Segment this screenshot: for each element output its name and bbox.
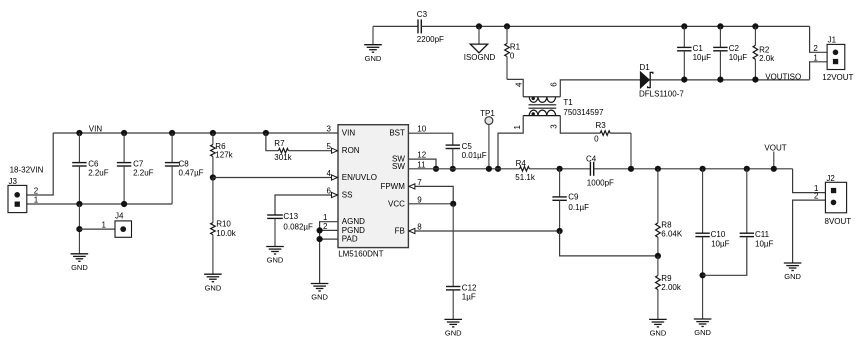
node R3 to rail: [628, 166, 634, 172]
svg-text:AGND: AGND: [342, 217, 365, 226]
svg-text:R6: R6: [215, 142, 226, 151]
connector J3: [8, 185, 27, 212]
svg-text:2: 2: [323, 222, 328, 231]
wire VCC: [408, 203, 453, 205]
svg-text:SW: SW: [392, 162, 405, 171]
svg-text:GND: GND: [694, 328, 711, 337]
svg-text:7: 7: [417, 178, 422, 187]
ground (R10): [204, 273, 222, 275]
svg-text:R9: R9: [661, 274, 672, 283]
svg-text:C5: C5: [462, 142, 473, 151]
svg-text:0.01µF: 0.01µF: [462, 151, 487, 160]
ground (input): [71, 253, 89, 255]
ground (C13): [266, 246, 284, 248]
svg-text:VOUTISO: VOUTISO: [765, 72, 801, 81]
node C1 bottom: [681, 77, 687, 83]
svg-text:1µF: 1µF: [462, 292, 476, 301]
svg-text:FPWM: FPWM: [380, 182, 405, 191]
svg-text:9: 9: [417, 195, 422, 204]
svg-text:2200pF: 2200pF: [417, 35, 444, 44]
svg-text:6: 6: [549, 82, 558, 87]
svg-text:127k: 127k: [215, 151, 233, 160]
node FB junction: [557, 228, 563, 234]
svg-text:2.2uF: 2.2uF: [88, 169, 109, 178]
capacitor C4: [589, 162, 591, 176]
svg-text:6.04K: 6.04K: [661, 230, 683, 239]
capacitor C11: [746, 169, 748, 233]
svg-text:VIN: VIN: [89, 125, 103, 134]
svg-text:18-32VIN: 18-32VIN: [10, 165, 44, 174]
svg-text:12: 12: [417, 151, 426, 160]
svg-text:C4: C4: [586, 154, 597, 163]
svg-text:2: 2: [814, 192, 819, 201]
node C10/C11 merge: [700, 272, 706, 278]
svg-text:301k: 301k: [274, 153, 292, 162]
capacitor C8: [171, 133, 173, 163]
ground (top left): [372, 26, 374, 44]
node J4 tap: [76, 226, 82, 232]
wire PGND: [320, 229, 338, 231]
wire GND rail (input): [27, 203, 172, 205]
svg-text:J4: J4: [115, 211, 124, 220]
ISOGND symbol: [478, 26, 480, 44]
resistor R1: [506, 26, 508, 43]
ground (C12): [444, 318, 462, 320]
resistor R7: [279, 148, 289, 153]
wire input GND drop: [78, 204, 80, 254]
svg-text:J2: J2: [826, 174, 835, 183]
svg-text:2.2uF: 2.2uF: [133, 169, 154, 178]
wire VOUT rail: [594, 168, 793, 170]
svg-text:GND: GND: [365, 54, 382, 63]
svg-text:D1: D1: [640, 63, 651, 72]
svg-text:2.0k: 2.0k: [759, 54, 775, 63]
svg-text:1: 1: [102, 220, 107, 229]
node C2 bottom: [717, 77, 723, 83]
wire VOUTISO rail: [650, 79, 809, 81]
svg-text:8VOUT: 8VOUT: [825, 217, 852, 226]
svg-text:4: 4: [327, 169, 332, 178]
wire SW rail: [408, 168, 519, 170]
svg-text:R3: R3: [596, 121, 607, 130]
node C6 bottom: [76, 201, 82, 207]
svg-text:VOUT: VOUT: [764, 143, 786, 152]
wire VIN rail: [53, 132, 338, 134]
svg-text:FB: FB: [395, 227, 405, 236]
capacitor C5: [446, 144, 460, 146]
wire VOUT to J2 pin 1: [793, 169, 826, 193]
svg-text:0.1µF: 0.1µF: [568, 203, 589, 212]
node R8 top: [655, 166, 661, 172]
svg-text:ISOGND: ISOGND: [464, 53, 496, 62]
svg-text:C13: C13: [283, 212, 298, 221]
svg-text:R8: R8: [661, 221, 672, 230]
svg-text:EN/UVLO: EN/UVLO: [342, 173, 377, 182]
ground (U1): [311, 283, 329, 285]
ground (J2): [784, 262, 802, 264]
resistor R8: [657, 169, 659, 223]
U1 FB input arrow: [409, 228, 415, 233]
svg-text:2: 2: [34, 187, 39, 196]
svg-text:PGND: PGND: [342, 226, 365, 235]
svg-text:GND: GND: [71, 263, 88, 272]
svg-text:750314597: 750314597: [563, 108, 604, 117]
node VCC junction: [450, 201, 456, 207]
svg-text:R1: R1: [510, 42, 521, 51]
wire FB: [408, 230, 559, 232]
capacitor C6: [78, 133, 80, 163]
node C8 top: [169, 130, 175, 136]
node EN junction: [210, 174, 216, 180]
capacitor C13: [267, 214, 283, 216]
node VOUT tap: [771, 166, 777, 172]
node C5 bottom: [450, 166, 456, 172]
capacitor C1: [683, 26, 685, 47]
node SW12 junction: [433, 166, 439, 172]
svg-text:10µF: 10µF: [729, 53, 748, 62]
svg-text:3: 3: [550, 124, 559, 129]
node C1 top: [681, 23, 687, 29]
node PAD junction: [317, 236, 323, 242]
wire FPWM: [408, 186, 453, 203]
svg-text:0.082µF: 0.082µF: [283, 222, 313, 231]
svg-text:0.47µF: 0.47µF: [179, 169, 204, 178]
wire SW pin 12 jog: [408, 159, 436, 169]
svg-text:R10: R10: [216, 220, 231, 229]
svg-text:1: 1: [323, 213, 328, 222]
node ripple junction: [557, 166, 563, 172]
svg-text:0: 0: [594, 135, 599, 144]
wire top rail to J1 pin 2: [810, 26, 828, 52]
svg-text:10.0k: 10.0k: [216, 229, 237, 238]
resistor R2: [754, 26, 756, 45]
node T1 pin1 on rail: [495, 166, 501, 172]
svg-text:C6: C6: [88, 160, 99, 169]
svg-text:5: 5: [327, 142, 332, 151]
svg-text:C1: C1: [693, 44, 704, 53]
svg-text:12VOUT: 12VOUT: [822, 73, 853, 82]
wire EN/UVLO: [213, 177, 338, 179]
svg-text:51.1k: 51.1k: [515, 173, 536, 182]
connector J2: [825, 182, 846, 213]
node C7 bottom: [121, 201, 127, 207]
ground (C10): [694, 318, 712, 320]
svg-text:8: 8: [417, 223, 422, 232]
wire FB to divider: [560, 231, 658, 256]
svg-text:C9: C9: [568, 193, 579, 202]
svg-text:1000pF: 1000pF: [587, 178, 614, 187]
diode D1: [640, 72, 649, 88]
svg-text:1: 1: [813, 53, 818, 62]
wire top rail right of C3: [421, 25, 809, 27]
svg-text:J3: J3: [9, 177, 18, 186]
svg-text:C2: C2: [729, 44, 740, 53]
resistor R9: [657, 256, 659, 276]
node ISOGND junction: [476, 23, 482, 29]
U1 FPWM input arrow: [409, 184, 415, 189]
node C2 top: [717, 23, 723, 29]
U1 EN input arrow: [332, 175, 338, 180]
svg-text:R7: R7: [274, 139, 285, 148]
wire VCC to C12: [452, 204, 454, 287]
svg-text:10µF: 10µF: [693, 53, 712, 62]
svg-text:C3: C3: [417, 10, 428, 19]
svg-text:GND: GND: [311, 293, 328, 302]
svg-text:GND: GND: [267, 256, 284, 265]
svg-text:T1: T1: [563, 98, 573, 107]
node R2 top: [752, 23, 758, 29]
svg-text:VCC: VCC: [388, 199, 405, 208]
U1 SS input arrow: [332, 192, 338, 197]
svg-text:11: 11: [417, 160, 426, 169]
capacitor C7: [123, 133, 125, 163]
capacitor C10: [702, 169, 704, 233]
svg-text:C12: C12: [462, 283, 477, 292]
svg-text:R4: R4: [516, 159, 527, 168]
op-amp U1 LM5160DNT body: [338, 125, 408, 248]
resistor R4: [520, 167, 530, 172]
capacitor C2: [719, 26, 721, 47]
wire T1 pin 3 to R3: [560, 116, 600, 134]
svg-text:2: 2: [813, 44, 818, 53]
svg-text:VIN: VIN: [342, 129, 356, 138]
svg-text:1: 1: [513, 125, 522, 130]
wire SS: [275, 195, 338, 215]
wire J3 pin2 riser: [27, 133, 53, 195]
svg-text:4: 4: [514, 82, 523, 87]
svg-text:10µF: 10µF: [755, 239, 774, 248]
svg-text:RON: RON: [342, 146, 360, 155]
ground (R9): [649, 318, 667, 320]
wire R1 to T1 pin 4: [507, 79, 523, 96]
svg-text:10: 10: [417, 125, 426, 134]
wire T1 pin 1 to SW rail: [498, 116, 523, 169]
svg-text:TP1: TP1: [480, 109, 495, 118]
node R2 bottom: [752, 77, 758, 83]
node R1 top junction: [504, 23, 510, 29]
svg-text:GND: GND: [205, 283, 222, 292]
wire J2 pin 2 to GND: [793, 200, 826, 263]
node C10 top: [700, 166, 706, 172]
capacitor C3: [417, 19, 419, 33]
svg-text:C8: C8: [179, 160, 190, 169]
wire J4 pin 1: [79, 228, 115, 230]
svg-text:GND: GND: [445, 329, 462, 338]
svg-text:C11: C11: [755, 230, 770, 239]
svg-text:C7: C7: [133, 160, 144, 169]
wire T1 pin 6 to D1 anode: [560, 80, 640, 97]
transformer T1 primary winding: [523, 96, 560, 98]
svg-text:0: 0: [510, 51, 515, 60]
connector J4: [115, 221, 132, 237]
node C7 top: [121, 130, 127, 136]
capacitor C12: [446, 286, 460, 288]
resistor R10: [212, 178, 214, 223]
wire BST: [408, 133, 452, 145]
svg-text:LM5160DNT: LM5160DNT: [338, 250, 383, 259]
svg-text:GND: GND: [784, 272, 801, 281]
svg-text:1: 1: [34, 196, 39, 205]
node PGND junction: [317, 227, 323, 233]
wire top rail left of C3: [373, 25, 418, 27]
node C11 top: [744, 166, 750, 172]
test point TP1: [488, 125, 490, 169]
svg-text:SS: SS: [342, 191, 353, 200]
svg-text:GND: GND: [650, 329, 667, 338]
wire VOUTISO to J1 pin 1: [810, 62, 828, 80]
svg-text:3: 3: [327, 125, 332, 134]
node R7 tap: [263, 130, 269, 136]
wire PAD: [320, 238, 338, 240]
svg-text:DFLS1100-7: DFLS1100-7: [639, 89, 684, 98]
svg-text:PAD: PAD: [342, 235, 358, 244]
connector J1: [827, 44, 845, 69]
svg-text:BST: BST: [389, 129, 405, 138]
node divider junction: [655, 253, 661, 259]
wire R7 drop: [266, 133, 279, 151]
resistor R3: [600, 131, 610, 136]
svg-text:2.00k: 2.00k: [661, 283, 682, 292]
capacitor C9: [559, 169, 561, 197]
node TP1 on rail: [486, 166, 492, 172]
node C6 top: [76, 130, 82, 136]
node R6 top: [210, 130, 216, 136]
resistor R6: [212, 133, 214, 145]
svg-text:6: 6: [327, 187, 332, 196]
transformer T1 core: [529, 104, 557, 106]
wire AGND: [320, 222, 338, 284]
svg-text:C10: C10: [711, 230, 726, 239]
svg-text:10µF: 10µF: [711, 239, 730, 248]
transformer T1 secondary winding: [523, 115, 560, 117]
U1 RON input arrow: [332, 148, 338, 153]
svg-text:J1: J1: [828, 35, 837, 44]
